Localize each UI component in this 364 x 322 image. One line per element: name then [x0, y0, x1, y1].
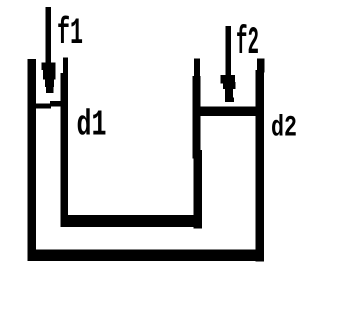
svg-text:d1: d1: [77, 105, 107, 146]
right piston d2 line: [199, 106, 258, 116]
right tube outer right wall: [256, 70, 265, 262]
svg-text:f1: f1: [57, 13, 83, 55]
force arrow f2 shaft: [225, 26, 231, 77]
inner bottom channel line: [61, 215, 203, 227]
svg-text:d2: d2: [271, 112, 297, 146]
outer bottom line: [28, 250, 265, 262]
left tube outer left wall: [28, 59, 37, 261]
force arrow f1 shaft: [46, 7, 52, 64]
left tube inner right wall upper part: [63, 58, 68, 78]
left piston d1 line right segment: [50, 101, 68, 107]
right tube inner left wall top part: [194, 59, 200, 77]
left tube inner right wall: [60, 73, 68, 227]
force arrow f2 head: [221, 75, 236, 102]
left piston d1 line left segment: [36, 103, 51, 108]
right tube inner left wall lower part: [194, 150, 203, 229]
svg-text:f2: f2: [236, 21, 259, 65]
right tube outer right wall top part: [257, 59, 264, 73]
force arrow f1 head: [41, 63, 55, 93]
right tube inner left wall: [193, 76, 201, 159]
